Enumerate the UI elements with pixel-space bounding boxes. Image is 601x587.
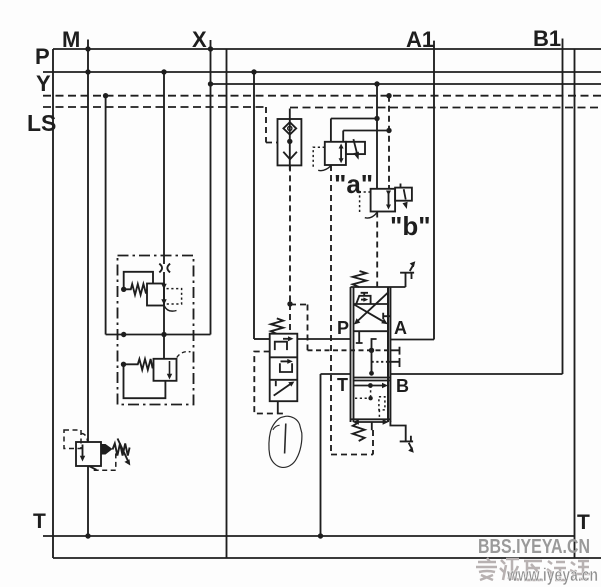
main MV1 dotted drain h [355,397,371,399]
main MV1 cross diag1 [354,305,385,323]
wire b pilot to main spool top (dashed) [376,212,378,288]
valve PRV1 body [147,284,164,306]
wire T drop from main valve [320,374,322,536]
arrowhead PRV1 top [161,284,166,290]
spring PRV1 [124,284,147,295]
wire LS jog down (dashed) [265,107,267,143]
valve PRV2 pilot loop [124,364,166,398]
node MV1 B line [368,383,373,388]
P rail [43,71,601,73]
compensator CV1 top port shape [275,342,287,350]
wire spool pilot line upper solid end with tick [390,347,400,355]
svg-text:P: P [35,44,50,69]
arrowhead MV1 B [382,383,388,388]
wire a pilot bottom horizontal (dashed) [331,454,373,456]
wire LS jog into shuttle (dashed) [266,142,278,144]
node P-reducing [161,69,166,74]
wire A1 port line [433,41,435,340]
compensator CV1 throttle stub [275,381,277,386]
enclosure pilot-reducing assembly (dash-dot box) [118,256,194,405]
arrowhead MV1 cross diag2 [354,318,360,324]
arrowhead pilot bottom-right [408,447,414,453]
main valve MV1 divider2 [354,330,389,332]
shuttle SH1 top stub [289,109,291,120]
Y rail (dashed) [43,95,601,97]
arrowhead PRV2 [169,361,171,375]
wire a pilot to main spool bottom (dashed) [330,165,332,455]
shuttle SH1 diamond [283,122,296,134]
valve PRV1 dotted pilot box [167,289,182,304]
pilot symbol bottom-right [390,421,413,450]
main valve MV1 divider1 [354,303,389,305]
main valve MV1 divider3 [354,378,391,381]
spring CV1 [271,318,283,333]
arrowhead RV1 adjust [124,459,130,465]
wire LS from shuttle bottom (dashed) [289,165,291,304]
main MV1 bottom shift arrows [356,421,386,423]
compensator CV1 bottom stub [277,401,279,413]
wire a pilot bottom rise (dashed) [372,430,374,455]
wire reducing-valve feed from P rail [163,72,165,264]
svg-text:Y: Y [36,71,51,96]
solenoid a actuator arrow shaft [353,139,356,152]
node M-frame [85,46,90,51]
solenoid b flow line [388,193,390,207]
arrowhead compensator mid [287,359,293,364]
wire LS pilot jog down (dashed) [307,305,309,351]
compensator CV1 LS side loop (dashed) [254,352,283,414]
wire a-valve drain drop [342,131,344,142]
svg-text:"a": "a" [334,169,373,199]
bottom frame [53,557,601,559]
solenoid b actuator arrow shaft [404,189,406,199]
relief RV1 adjust arrow shaft [118,439,129,462]
main valve MV1 top edge [351,286,406,288]
wire M line below relief valve [87,466,89,536]
compensator CV1 mid port shape [280,363,292,372]
wire PRV2 inlet [163,335,165,359]
shuttle SH1 ball [288,126,292,130]
compensator CV1 top arrow [283,338,290,340]
node ab-drain [386,128,391,133]
relief RV1 wedge [101,444,113,455]
wire B1 port line [562,39,564,375]
node spool-pilot [369,348,374,353]
arrowhead solenoid-a actuator [353,152,359,160]
svg-text:A: A [394,318,407,338]
node P-feed [251,69,256,74]
node feed-lower-red [161,332,166,337]
svg-text:A1: A1 [406,27,434,52]
relief RV1 tail tick [89,466,97,470]
valve PRV1 pilot loop [124,272,153,290]
solenoid a flow line [340,147,342,161]
solenoid b dotted bracket [360,192,371,215]
main MV1 bottom extension [371,422,373,430]
wire reducing feed header [106,334,211,336]
svg-text:M: M [62,27,80,52]
wire P feed down [253,72,255,339]
compensator CV1 mid arrow [281,360,290,362]
node X-Xrail [208,81,213,86]
svg-text:www.iyeya.cn: www.iyeya.cn [506,565,598,585]
node ab-supply [374,116,379,121]
arrowhead solenoid-b down1 [386,191,391,196]
wire spool pilot line upper (dashed) [308,349,391,351]
node spring-upper-red [121,287,126,292]
node LS-pilot-split [287,301,292,306]
shuttle valve SH1 body [278,119,302,165]
node shuttle-mid [287,139,292,144]
wire X pilot supply drop [376,84,378,189]
solenoid b hook [365,212,377,218]
main MV1 inner passage [372,339,377,374]
spring MV1 bottom [353,423,365,442]
compensator CV1 throttle diagonal [274,383,292,395]
wire b drain stub [388,185,390,189]
node feed-upper-red [121,332,126,337]
watermark chinese glyphs [476,558,590,580]
shuttle SH1 center line [289,119,291,170]
main valve MV1 bottom edge [351,418,391,420]
wire P feed to compensator [254,338,270,340]
valve PRV1 adjust hook [164,306,176,311]
main MV1 top inner box [356,296,370,304]
wire T port line [321,373,351,375]
node Y-drain [386,93,391,98]
relief RV1 drain dashes [90,453,115,470]
main MV1 B arrow line [354,385,385,387]
relief RV1 inner arrow [82,445,84,459]
solenoid a hook [318,166,331,171]
valve PRV2 dashed drain arc [177,352,191,358]
main valve MV1 right border [388,287,390,422]
main MV1 inner arrow [361,299,365,301]
wire B port line [390,373,562,375]
left frame [52,49,54,558]
node MV1 dotted drain [368,396,372,400]
svg-text:BBS.IYEYA.CN: BBS.IYEYA.CN [478,536,590,558]
arrowhead compensator throttle [288,382,294,387]
svg-text:T: T [577,511,590,534]
svg-text:LS: LS [27,110,56,136]
node T-drop [318,533,323,538]
wire spool pilot line lower solid end with tick [387,358,399,367]
node X-frame [208,46,213,51]
solenoid a dotted bracket [313,147,325,167]
arrowhead RV1 inner [80,456,85,462]
main MV1 dotted box drop [378,410,380,418]
main MV1 cross diag2 [357,292,389,322]
wire A port line [390,339,434,341]
valve PRV2 body [154,359,177,381]
solenoid valve a body [325,142,346,165]
wire compensator to main valve P [297,338,350,340]
wire reducing-valve feed below orifice [163,272,165,335]
wire LS to compensator spring (dashed) [289,304,291,334]
main MV1 side tick [383,313,390,320]
svg-text:B: B [396,376,409,396]
spring RV1 [113,444,130,456]
node M-T [85,533,90,538]
solenoid a coil box [346,142,365,154]
node MV1 inner passage top [369,371,374,376]
solenoid b coil stub [400,184,402,188]
relief RV1 dashed pilot arc [81,434,88,442]
main MV1 top inner tick [361,293,368,296]
wire X port line [210,40,212,335]
wire spool pilot line lower (dotted) [372,361,388,363]
LS rail right (dashed) [290,107,601,109]
main MV1 dotted drain v [370,386,372,399]
annotation blob [269,416,302,467]
wire LS pilot jog right (dashed) [290,304,308,306]
arrowhead solenoid-b actuator [403,202,408,209]
svg-text:P: P [337,318,349,338]
wire a/b drain header [343,130,389,132]
T rail [43,535,575,537]
wire pilot supply from Y-dash rail [105,96,107,335]
node Y-pilot [103,93,108,98]
node X-supply [374,81,379,86]
arrowhead PRV1 bottom [161,299,166,305]
relief RV1 dashed pilot box [64,430,81,449]
spring PRV2 [124,359,154,370]
shuttle SH1 seat [283,152,297,160]
arrowhead solenoid-a up [339,144,344,149]
node M-P [85,69,90,74]
relief valve RV1 body [76,442,101,466]
right frame [574,49,576,558]
pilot symbol top-right [400,265,414,288]
orifice FE1 [159,264,170,273]
solenoid b coil box [395,188,412,201]
svg-text:"b": "b" [390,211,431,241]
wire a/b solenoid supply header [331,118,377,120]
svg-text:B1: B1 [533,26,561,51]
spring MV1 top [353,271,367,287]
wire a-valve supply drop [330,119,332,142]
arrowhead pilot top-right [410,261,416,267]
svg-text:T: T [33,510,46,533]
arrowhead MV1 shift right [383,419,389,424]
arrowhead solenoid-b down2 [386,205,391,210]
wire tank line T1 [226,49,228,558]
arrowhead compensator top [288,336,294,341]
main valve MV1 left border [351,287,354,422]
arrowhead solenoid-a down [339,158,344,163]
wire M port line [87,40,89,443]
main MV1 port stub [356,331,363,343]
svg-text:T: T [337,375,348,395]
main MV1 dotted box [379,397,385,410]
wire Y drain drop (dashed) [388,96,390,185]
LS rail left (dashed) [43,106,266,108]
top frame [53,48,601,50]
compensator CV1 dividers [270,357,298,380]
X rail [211,83,601,85]
compensator CV1 body [270,334,298,402]
svg-text:X: X [192,27,207,52]
node spring-lower-red [121,362,126,367]
solenoid valve b body [371,189,396,212]
arrowhead MV1 cross diag1 [381,319,388,325]
arrowhead MV1 shift left [353,419,359,424]
